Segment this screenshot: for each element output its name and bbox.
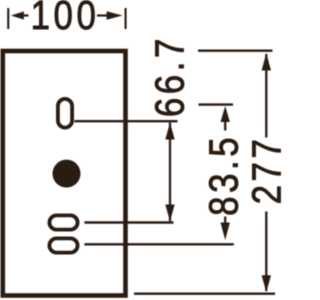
dim 83.5: top stub line [199,103,234,105]
dim 66.7: dimension line [169,123,171,222]
dim 66.7: up arrow [165,123,174,140]
dim 277: top extension line [198,50,273,52]
dim 100: right extension tick [125,8,127,29]
dim 83.5: down arrow + line [221,223,230,241]
svg-text:277: 277 [245,136,282,205]
mounting slot (lower upper, horizontal) [49,215,77,229]
dim 277: dimension line upper segment [265,54,267,138]
mounting slot (top, vertical) [58,99,72,128]
leader from top slot [75,120,178,122]
svg-text:66.7: 66.7 [148,35,193,117]
dim 100: left arrow [11,11,24,19]
dim 100: left extension tick [7,8,9,29]
leader from upper bottom slot [84,221,173,223]
dim 277: bottom extension line [134,293,275,295]
mounting slot (lower bottom, horizontal) [49,238,77,252]
dim 66.7: down arrow [165,205,174,222]
dim 100: right arrow [107,11,123,19]
leader from lower bottom slot [84,243,233,245]
dim 83.5: up arrow + line [221,106,230,122]
svg-text:83.5: 83.5 [202,134,247,216]
dim 277: dimension line lower segment [265,212,267,292]
svg-text:100: 100 [31,0,100,39]
wiring hole (filled circle) [53,160,81,188]
dim 277: up arrow [262,53,271,71]
dim 277: down arrow [262,275,271,292]
fixture body outline [3,51,126,296]
